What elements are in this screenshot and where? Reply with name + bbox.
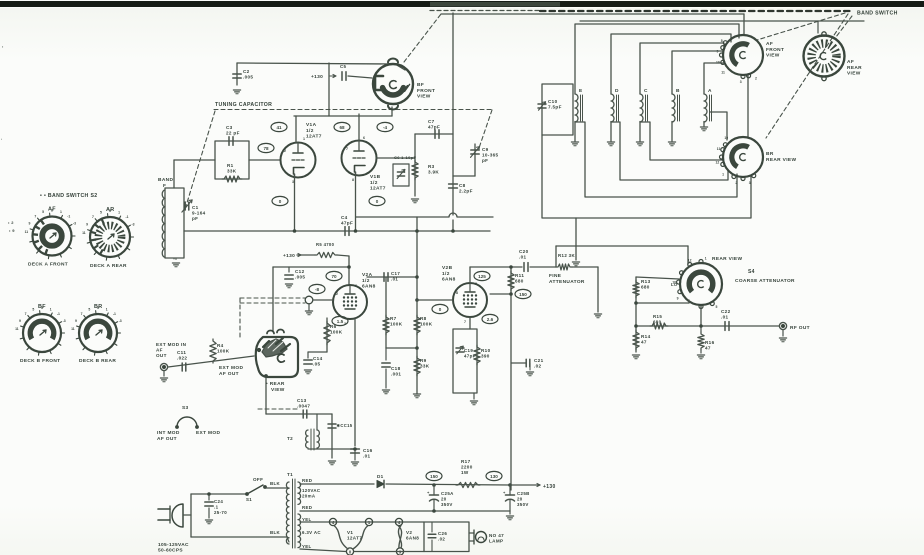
svg-text:C9: C9 <box>482 147 489 152</box>
svg-text:-4: -4 <box>383 125 388 130</box>
svg-text:5: 5 <box>88 308 90 312</box>
svg-text:C4: C4 <box>341 215 348 220</box>
svg-text:-1: -1 <box>113 312 116 316</box>
svg-text:R4: R4 <box>217 343 224 348</box>
svg-text:12: 12 <box>716 161 720 165</box>
svg-text:V1A: V1A <box>306 122 317 128</box>
svg-text:A: A <box>708 88 712 94</box>
svg-text:350V: 350V <box>441 502 453 507</box>
svg-text:R10: R10 <box>481 348 491 353</box>
svg-text:.01: .01 <box>721 315 729 320</box>
svg-text:pF: pF <box>192 216 198 221</box>
svg-text:2.6: 2.6 <box>487 317 494 322</box>
svg-text:.1: .1 <box>214 504 219 509</box>
svg-text:+130: +130 <box>283 253 295 259</box>
svg-text:9: 9 <box>677 297 679 301</box>
svg-text:-1: -1 <box>67 215 70 219</box>
svg-text:9: 9 <box>475 282 477 286</box>
svg-text:9: 9 <box>29 222 31 226</box>
svg-text:130: 130 <box>490 474 498 479</box>
svg-text:25-70: 25-70 <box>214 510 227 515</box>
svg-text:105-125VAC: 105-125VAC <box>158 542 189 548</box>
svg-text:.01: .01 <box>519 255 527 260</box>
svg-text:LAMP: LAMP <box>489 539 503 544</box>
svg-text:C25A: C25A <box>441 491 454 496</box>
svg-text:2: 2 <box>284 149 286 153</box>
svg-text:AF: AF <box>847 59 854 65</box>
svg-text:2.2pF: 2.2pF <box>459 189 473 194</box>
svg-text:S3: S3 <box>182 405 189 411</box>
svg-text:.005: .005 <box>295 275 305 280</box>
svg-text:10-365: 10-365 <box>482 153 498 158</box>
svg-text:11: 11 <box>82 231 86 235</box>
svg-text:VIEW: VIEW <box>766 53 780 59</box>
svg-text:•: • <box>1 137 2 141</box>
svg-text:V1B: V1B <box>370 174 381 180</box>
svg-text:pF: pF <box>482 158 488 163</box>
svg-text:FRONT: FRONT <box>417 88 435 94</box>
svg-text:3: 3 <box>97 306 99 310</box>
svg-text:BLK: BLK <box>270 530 281 535</box>
svg-text:C13: C13 <box>297 398 307 403</box>
svg-text:R3: R3 <box>428 164 435 169</box>
svg-text:▪: ▪ <box>2 45 4 49</box>
svg-text:-8: -8 <box>315 287 320 292</box>
svg-text:2: 2 <box>755 77 757 81</box>
svg-text:7: 7 <box>464 320 466 324</box>
svg-text:11: 11 <box>25 230 29 234</box>
svg-text:1: 1 <box>60 210 62 214</box>
svg-text:7: 7 <box>34 215 36 219</box>
svg-text:-1: -1 <box>126 215 129 219</box>
svg-text:1: 1 <box>118 211 120 215</box>
svg-text:C14: C14 <box>313 356 323 361</box>
svg-text:70: 70 <box>331 274 337 279</box>
svg-text:125: 125 <box>478 274 486 279</box>
svg-text:+130: +130 <box>311 74 323 80</box>
svg-text:DECK B FRONT: DECK B FRONT <box>20 358 60 364</box>
svg-text:V2: V2 <box>406 530 412 535</box>
svg-text:C5: C5 <box>340 64 347 69</box>
svg-text:3: 3 <box>109 209 111 213</box>
svg-text:41: 41 <box>276 125 282 130</box>
svg-text:1: 1 <box>303 137 305 141</box>
svg-text:• REAR: • REAR <box>266 381 285 387</box>
svg-text:1W: 1W <box>461 470 469 475</box>
svg-text:.005: .005 <box>243 75 253 80</box>
svg-text:C16: C16 <box>363 448 373 453</box>
svg-text:1: 1 <box>705 256 707 260</box>
svg-text:5: 5 <box>716 305 718 309</box>
svg-text:1/2: 1/2 <box>442 271 450 277</box>
svg-text:EXT MOD: EXT MOD <box>219 365 243 371</box>
svg-text:R15: R15 <box>653 314 662 319</box>
svg-text:RF OUT: RF OUT <box>790 325 810 331</box>
svg-text:680: 680 <box>515 279 524 284</box>
svg-text:AF OUT: AF OUT <box>219 371 239 377</box>
svg-text:C3: C3 <box>226 125 233 130</box>
svg-text:9: 9 <box>86 222 88 226</box>
svg-text:DECK A REAR: DECK A REAR <box>90 263 127 269</box>
svg-text:1: 1 <box>50 308 52 312</box>
svg-text:20mA: 20mA <box>302 493 316 498</box>
svg-text:C7: C7 <box>428 119 435 124</box>
svg-text:680: 680 <box>653 319 662 324</box>
svg-text:120VAC: 120VAC <box>302 488 321 493</box>
svg-text:EXT MOD: EXT MOD <box>196 430 220 436</box>
svg-text:20: 20 <box>441 496 447 501</box>
svg-text:9: 9 <box>75 319 77 323</box>
svg-text:S1: S1 <box>246 497 252 502</box>
svg-text:REAR VIEW: REAR VIEW <box>712 256 742 262</box>
svg-text:6AN8: 6AN8 <box>442 277 456 283</box>
svg-text:RED: RED <box>302 505 312 510</box>
svg-text:-3: -3 <box>119 319 122 323</box>
svg-text:100K: 100K <box>217 349 230 354</box>
svg-text:1/2: 1/2 <box>306 128 314 134</box>
svg-text:3: 3 <box>740 80 742 84</box>
svg-text:47pF: 47pF <box>341 221 353 226</box>
svg-text:C1: C1 <box>192 205 199 210</box>
svg-text:R9: R9 <box>420 358 427 363</box>
svg-text:47pF: 47pF <box>464 353 476 358</box>
svg-text:12AT7: 12AT7 <box>306 134 322 140</box>
svg-text:7.5pF: 7.5pF <box>548 105 562 110</box>
svg-text:7: 7 <box>81 312 83 316</box>
svg-text:D: D <box>615 88 619 94</box>
svg-text:T1: T1 <box>287 472 293 477</box>
svg-text:OUT: OUT <box>156 353 167 358</box>
svg-text:9: 9 <box>19 319 21 323</box>
svg-text:11: 11 <box>721 71 725 75</box>
svg-text:3: 3 <box>41 306 43 310</box>
svg-text:6: 6 <box>355 284 357 288</box>
svg-text:6AN8: 6AN8 <box>406 535 419 540</box>
svg-text:350V: 350V <box>517 502 529 507</box>
svg-text:AF OUT: AF OUT <box>157 436 177 442</box>
svg-text:E: E <box>579 88 583 94</box>
svg-text:2: 2 <box>735 181 737 185</box>
svg-text:.0047: .0047 <box>297 404 310 409</box>
svg-text:BAND: BAND <box>158 177 173 183</box>
svg-text:2200: 2200 <box>461 465 473 470</box>
svg-text:680: 680 <box>641 285 650 290</box>
svg-text:22 pF: 22 pF <box>226 131 240 136</box>
svg-text:OFF: OFF <box>253 477 263 482</box>
svg-text:R1: R1 <box>227 163 234 168</box>
svg-text:C22: C22 <box>721 309 731 314</box>
svg-text:10: 10 <box>724 136 728 140</box>
svg-text:C: C <box>644 88 648 94</box>
svg-text:RED: RED <box>302 478 312 483</box>
svg-text:.01: .01 <box>391 276 398 281</box>
svg-text:C12: C12 <box>295 269 305 274</box>
svg-text:R5 4700: R5 4700 <box>316 242 335 247</box>
svg-text:VIEW: VIEW <box>847 71 861 77</box>
svg-text:INT MOD: INT MOD <box>157 430 180 436</box>
svg-text:LO: LO <box>671 282 678 287</box>
svg-text:REAR: REAR <box>847 65 862 71</box>
svg-text:R7: R7 <box>390 316 397 321</box>
svg-text:BAND SWITCH: BAND SWITCH <box>857 11 898 17</box>
svg-text:8: 8 <box>352 178 354 182</box>
svg-text:T2: T2 <box>287 436 293 441</box>
svg-text:C24: C24 <box>214 499 223 504</box>
svg-text:47: 47 <box>705 346 711 351</box>
svg-text:C6 1-10pF: C6 1-10pF <box>394 155 416 160</box>
svg-text:7: 7 <box>25 312 27 316</box>
svg-text:0: 0 <box>376 199 379 204</box>
svg-text:2: 2 <box>336 292 338 296</box>
svg-text:TUNING CAPACITOR: TUNING CAPACITOR <box>215 102 272 108</box>
svg-text:33K: 33K <box>420 364 430 369</box>
svg-text:12AT7: 12AT7 <box>347 535 362 540</box>
svg-text:V2B: V2B <box>442 265 453 271</box>
svg-text:ATTENUATOR: ATTENUATOR <box>549 279 585 285</box>
svg-text:+: + <box>427 490 430 495</box>
svg-text:5: 5 <box>42 210 44 214</box>
svg-text:BLK: BLK <box>270 481 281 486</box>
svg-text:-1: -1 <box>57 312 60 316</box>
svg-text:D1: D1 <box>377 474 384 479</box>
svg-text:-3: -3 <box>73 222 76 226</box>
svg-text:3.9K: 3.9K <box>428 170 439 175</box>
svg-text:V1: V1 <box>347 530 353 535</box>
svg-text:AF: AF <box>156 348 163 353</box>
svg-text:DECK B REAR: DECK B REAR <box>79 358 116 364</box>
svg-text:100K: 100K <box>330 330 343 335</box>
svg-text:7: 7 <box>346 147 348 151</box>
svg-text:• 2: • 2 <box>8 220 14 225</box>
svg-text:3: 3 <box>51 209 53 213</box>
svg-text:C21: C21 <box>534 358 544 363</box>
svg-text:10: 10 <box>716 61 720 65</box>
svg-text:47pF: 47pF <box>428 125 440 130</box>
svg-text:-3: -3 <box>131 222 134 226</box>
svg-text:11: 11 <box>71 327 75 331</box>
svg-text:47: 47 <box>641 340 647 345</box>
svg-text:C19: C19 <box>464 348 473 353</box>
svg-text:C25B: C25B <box>517 491 530 496</box>
svg-text:C18: C18 <box>391 366 401 371</box>
svg-text:6.3V AC: 6.3V AC <box>302 530 321 535</box>
svg-text:1/2: 1/2 <box>362 278 370 284</box>
svg-text:20: 20 <box>517 496 523 501</box>
svg-text:11: 11 <box>717 147 721 151</box>
svg-text:FINE: FINE <box>549 273 562 279</box>
svg-text:11: 11 <box>15 327 19 331</box>
svg-text:• • BAND SWITCH S2: • • BAND SWITCH S2 <box>40 193 98 199</box>
svg-text:+: + <box>503 490 506 495</box>
svg-text:3: 3 <box>749 181 751 185</box>
svg-text:33K: 33K <box>227 169 237 174</box>
svg-text:9: 9 <box>716 49 718 53</box>
svg-text:-3: -3 <box>63 319 66 323</box>
svg-text:COARSE ATTENUATOR: COARSE ATTENUATOR <box>735 278 795 284</box>
svg-text:.02: .02 <box>534 364 542 369</box>
svg-text:9-164: 9-164 <box>192 211 206 216</box>
svg-text:B: B <box>676 88 680 94</box>
svg-text:R8: R8 <box>420 316 427 321</box>
svg-text:.01: .01 <box>363 454 371 459</box>
svg-text:BR: BR <box>766 151 774 157</box>
svg-text:100K: 100K <box>390 322 403 327</box>
svg-text:R11: R11 <box>515 273 524 278</box>
svg-text:✱CC15: ✱CC15 <box>337 423 353 428</box>
svg-text:BF: BF <box>417 82 424 88</box>
svg-text:6: 6 <box>363 136 365 140</box>
svg-text:1: 1 <box>722 173 724 177</box>
svg-text:REAR VIEW: REAR VIEW <box>766 157 796 163</box>
svg-text:5: 5 <box>100 211 102 215</box>
svg-text:C10: C10 <box>548 99 558 104</box>
svg-text:R17: R17 <box>461 459 471 464</box>
svg-text:EXT MOD IN: EXT MOD IN <box>156 342 187 347</box>
svg-text:.05: .05 <box>313 362 321 367</box>
svg-text:78: 78 <box>263 146 269 151</box>
svg-text:68: 68 <box>339 125 345 130</box>
svg-text:YEL: YEL <box>302 517 312 522</box>
svg-text:0: 0 <box>279 199 282 204</box>
svg-text:8: 8 <box>721 39 723 43</box>
svg-text:VIEW: VIEW <box>417 94 431 100</box>
svg-text:6AN8: 6AN8 <box>362 284 376 290</box>
svg-text:+130: +130 <box>543 484 556 490</box>
svg-text:1/2: 1/2 <box>370 180 378 186</box>
svg-text:150: 150 <box>519 292 527 297</box>
svg-text:AF: AF <box>766 41 773 47</box>
svg-text:.02: .02 <box>438 536 445 541</box>
svg-text:8: 8 <box>456 291 458 295</box>
svg-text:• 9: • 9 <box>9 228 15 233</box>
svg-text:R12 3K: R12 3K <box>558 253 575 258</box>
svg-text:12: 12 <box>688 259 692 263</box>
svg-text:3: 3 <box>344 322 346 326</box>
svg-text:1: 1 <box>106 308 108 312</box>
svg-text:5: 5 <box>32 308 34 312</box>
svg-text:C2: C2 <box>243 69 250 74</box>
svg-text:C20: C20 <box>519 249 529 254</box>
svg-text:VIEW: VIEW <box>271 387 285 393</box>
svg-text:50-60CPS: 50-60CPS <box>158 548 183 554</box>
svg-text:390: 390 <box>481 354 490 359</box>
svg-text:C26: C26 <box>438 531 447 536</box>
svg-text:R16: R16 <box>705 340 715 345</box>
svg-text:S4: S4 <box>748 269 755 275</box>
svg-text:YEL: YEL <box>302 544 312 549</box>
svg-text:150: 150 <box>430 474 438 479</box>
svg-text:C11: C11 <box>177 350 186 355</box>
svg-text:0: 0 <box>439 307 442 312</box>
svg-text:R13: R13 <box>641 279 651 284</box>
svg-text:7: 7 <box>92 215 94 219</box>
svg-text:100K: 100K <box>420 322 433 327</box>
svg-text:C8: C8 <box>459 183 466 188</box>
svg-text:F: F <box>163 183 166 189</box>
svg-text:C17: C17 <box>391 271 400 276</box>
svg-text:FRONT: FRONT <box>766 47 784 53</box>
svg-text:NO 47: NO 47 <box>489 533 504 538</box>
svg-text:DECK A FRONT: DECK A FRONT <box>28 262 68 268</box>
svg-text:.001: .001 <box>391 372 401 377</box>
svg-text:R6: R6 <box>330 324 337 329</box>
svg-text:12AT7: 12AT7 <box>370 186 386 192</box>
svg-text:.022: .022 <box>177 356 187 361</box>
svg-text:R14: R14 <box>641 334 651 339</box>
svg-text:1.5: 1.5 <box>337 319 344 324</box>
